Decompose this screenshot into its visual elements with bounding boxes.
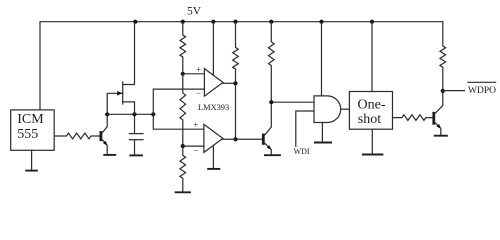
node sense-comparators [151, 112, 155, 116]
transistor Q3 collector [434, 91, 442, 114]
transistor J1 source [123, 102, 135, 114]
wire U2A output [223, 82, 236, 84]
transistor J1 JFET channel bar [122, 82, 124, 104]
svg-text:ICM: ICM [17, 112, 44, 127]
wire comparator ground pin [212, 146, 214, 168]
transistor Q2 emitter [264, 142, 271, 154]
wire nodeA to U2A + input [183, 73, 205, 75]
node C divider bottom [181, 144, 185, 148]
wire sense to U2B + input [153, 114, 204, 129]
transistor J1 drain [123, 22, 135, 85]
wire gate ground pin [321, 123, 323, 142]
resistor R_base Q1 [54, 133, 100, 139]
ground Q1 [103, 154, 116, 156]
transistor Q2 collector [264, 102, 271, 136]
node sense-cap [132, 112, 136, 116]
transistor Q2 base bar [262, 134, 265, 145]
capacitor C1 bottom lead [134, 140, 136, 155]
ground gate [314, 142, 332, 144]
transistor Q3 base bar [432, 112, 435, 125]
node A divider top [181, 72, 185, 76]
resistor R6 one-shot to Q3 [393, 115, 433, 121]
node rail-comparator V+ [211, 20, 215, 24]
node rail-R1 [181, 20, 185, 24]
svg-text:WDI: WDI [294, 147, 310, 156]
ground ICM555 [25, 170, 38, 172]
svg-text:−: − [193, 146, 198, 156]
ground Q3 [434, 135, 448, 137]
node sense-Q1/gate [105, 112, 109, 116]
wire gate output to one-shot [341, 108, 350, 110]
svg-text:555: 555 [17, 127, 38, 142]
transistor J1 gate arrow [117, 91, 122, 96]
svg-text:WDPO: WDPO [468, 86, 496, 96]
transistor J1 gate [107, 93, 123, 114]
transistor Q1 base bar [100, 131, 103, 141]
node rail-R4 [233, 20, 237, 24]
svg-text:+: + [196, 65, 201, 75]
node rail-one-shot [370, 20, 374, 24]
svg-text:LMX393: LMX393 [198, 103, 229, 112]
wire WDI input [296, 111, 314, 146]
ground Q2 [264, 154, 281, 156]
wire ICM555 ground lead [31, 150, 33, 170]
node rail-JFET drain [133, 20, 137, 24]
node lower output [233, 137, 237, 141]
label WDPO overline [468, 81, 496, 83]
resistor R7 [440, 22, 446, 91]
wire gate V+ pin [321, 22, 323, 96]
wire sense to U2A - input [153, 89, 204, 114]
transistor Q3 emitter [434, 122, 440, 135]
one-shot U3 box [349, 92, 392, 130]
node WDPO [441, 89, 445, 93]
and-gate G1 body [314, 96, 341, 123]
node upper output [233, 81, 237, 85]
ground one-shot [362, 154, 384, 156]
capacitor C1 bottom plate [130, 139, 144, 141]
capacitor C1 top plate [130, 133, 144, 135]
ground comparator [207, 168, 220, 170]
transistor Q3 emitter arrow [436, 124, 441, 129]
resistor R2 [180, 74, 186, 146]
resistor R5 [269, 22, 275, 103]
wire one-shot V+ pin [371, 22, 373, 92]
wire 5V top rail [40, 22, 443, 110]
IC U1 ICM 555 box [11, 110, 55, 150]
node rail-R5 [269, 20, 273, 24]
wire joining comparator outputs [235, 83, 237, 139]
wire nodeC to U2B - input [183, 145, 204, 147]
svg-text:shot: shot [358, 112, 381, 127]
transistor Q1 emitter [102, 139, 108, 154]
transistor Q1 emitter arrow [103, 141, 108, 146]
node Q2 collector [269, 100, 273, 104]
svg-text:+: + [193, 120, 198, 130]
op-amp U2A comparator triangle [204, 69, 223, 97]
resistor R3 [180, 146, 186, 192]
transistor Q1 collector [102, 114, 108, 133]
ground R3 [175, 191, 191, 193]
transistor Q2 emitter arrow [267, 145, 272, 150]
node rail-AND gate [319, 20, 323, 24]
op-amp U2B comparator triangle [204, 124, 223, 152]
svg-text:−: − [196, 88, 201, 98]
ground C1 [129, 154, 143, 156]
resistor R4 [233, 22, 239, 84]
wire U2B output to Q2 base [223, 138, 262, 140]
wire comparator V+ pin [212, 22, 214, 75]
wire Q2 collector to gate input 1 [271, 101, 314, 103]
wire sense rail [107, 113, 153, 115]
capacitor C1 top lead [134, 114, 136, 133]
wire WDPO stub [443, 90, 465, 92]
svg-text:One-: One- [358, 97, 386, 112]
svg-text:5V: 5V [187, 6, 202, 18]
wire one-shot ground pin [371, 129, 373, 154]
resistor R1 [180, 22, 186, 74]
